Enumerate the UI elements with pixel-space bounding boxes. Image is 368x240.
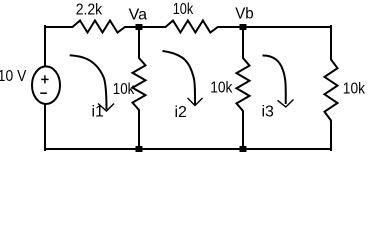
svg-text:10k: 10k bbox=[113, 81, 135, 98]
svg-text:10k: 10k bbox=[173, 1, 194, 18]
svg-text:Vb: Vb bbox=[235, 6, 254, 23]
svg-text:i3: i3 bbox=[262, 104, 275, 121]
svg-text:10k: 10k bbox=[210, 80, 233, 97]
svg-text:Va: Va bbox=[129, 7, 147, 24]
svg-text:i1: i1 bbox=[92, 104, 105, 121]
svg-text:10k: 10k bbox=[343, 80, 366, 97]
svg-text:10 V: 10 V bbox=[0, 68, 27, 85]
svg-text:2.2k: 2.2k bbox=[76, 2, 103, 19]
svg-text:i2: i2 bbox=[175, 104, 188, 121]
